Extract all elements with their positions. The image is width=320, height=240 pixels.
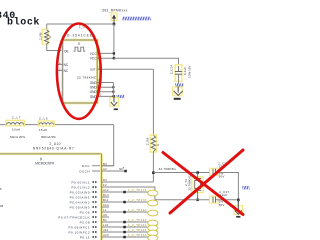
power pin arrow (yellow highlighted) [111, 13, 117, 24]
svg-text:32.768KBu: 32.768KBu [159, 167, 176, 171]
P0.04 testpoint junction dot [123, 201, 126, 204]
ground symbol below oscillator (yellow highlighted) [110, 96, 119, 110]
P0.06 testpoint junction dot [123, 211, 126, 214]
pin P0.11 glyph [92, 236, 98, 238]
pin VCC2 wire [97, 57, 114, 59]
pin GND3 wire [97, 91, 113, 93]
junction VCC2/rail [113, 57, 115, 59]
svg-text:VCC: VCC [90, 52, 97, 56]
pin OUT wire to vertical drop [97, 68, 153, 70]
junction GND bus bottom [113, 95, 115, 97]
svg-text:P0.10/NFC2: P0.10/NFC2 [68, 230, 90, 234]
junction VCC1/rail [113, 52, 115, 54]
svg-text:B11: B11 [103, 198, 109, 202]
wire: R9 to crystal rail junction [152, 151, 154, 182]
DCCH stub purple tick [123, 167, 124, 168]
svg-text:P0.09/NFC1: P0.09/NFC1 [68, 225, 90, 229]
pin P0.03 stub [102, 196, 110, 198]
svg-text:2_C14: 2_C14 [169, 65, 173, 74]
svg-text:0: 0 [78, 42, 80, 46]
svg-text:0: 0 [157, 143, 159, 147]
svg-text:50V: 50V [219, 203, 225, 207]
svg-text:A8: A8 [103, 213, 107, 217]
svg-text:0: 0 [49, 35, 51, 39]
pin GND1 wire [97, 82, 113, 84]
pin P0.01 wire to crystal bottom riser [102, 187, 155, 200]
wire: crystal top rail XC1 [153, 172, 213, 174]
svg-text:2_R9: 2_R9 [146, 138, 150, 146]
svg-text:J24: J24 [103, 228, 109, 232]
pin P0.06 wire [102, 211, 148, 213]
junction crystal bottom [196, 199, 199, 202]
pin VCC1 wire [97, 52, 114, 54]
svg-text:A12: A12 [103, 188, 109, 192]
svg-text:P0.02/AIN0: P0.02/AIN0 [70, 190, 90, 194]
svg-text:2_R8: 2_R8 [38, 32, 42, 40]
inductor L7 (yellow highlighted coil) [6, 120, 25, 125]
pin P0.07 glyph [92, 216, 98, 218]
oscillator U=G1 body (yellow highlighted box) [63, 40, 98, 103]
pin P0.09 wire [102, 226, 148, 228]
svg-text:MICROCNTR: MICROCNTR [35, 161, 54, 165]
wire: oscillator OUT vertical drop to R9 [152, 69, 154, 135]
svg-text:P0.07/TRACECLK: P0.07/TRACECLK [58, 215, 90, 219]
svg-text:B13: B13 [103, 193, 109, 197]
pin P0.10 wire [102, 231, 148, 233]
svg-text:300mA 5%: 300mA 5% [41, 135, 56, 139]
P0.08 testpoint junction dot [123, 221, 126, 224]
pin P0.04 glyph [92, 201, 98, 203]
pin P0.09 glyph [92, 226, 98, 228]
ground symbol crystal caps (yellow highlighted) [234, 200, 243, 218]
svg-text:A2: A2 [103, 167, 107, 171]
svg-text:B3: B3 [103, 162, 107, 166]
MCU box right edge (yellow highlighted) [100, 154, 103, 240]
wire: VCC rail to decoupling cap C14 [114, 58, 179, 71]
svg-text:F2: F2 [103, 183, 107, 187]
P0.10 testpoint junction dot [123, 231, 126, 234]
pin DCCH glyph [92, 170, 100, 172]
svg-text:1_2_TP143: 1_2_TP143 [128, 223, 147, 227]
pin P0.02 glyph [92, 191, 98, 193]
svg-text:GND: GND [90, 90, 97, 94]
svg-text:B: B [0, 187, 2, 191]
pin P0.04 wire [102, 201, 148, 203]
red annotation X stroke 1 [163, 153, 243, 215]
junction at top rail / power arrow [113, 23, 116, 26]
svg-text:DCCH: DCCH [79, 169, 90, 173]
pin P0.00 wire to crystal riser [102, 181, 154, 183]
svg-text:A10: A10 [103, 203, 109, 207]
svg-text:NC: NC [119, 167, 123, 171]
pin P0.08 glyph [92, 221, 98, 223]
svg-text:P0.08: P0.08 [80, 220, 90, 224]
red annotation X stroke 2 [170, 150, 243, 213]
svg-text:P0.03/AIN1: P0.03/AIN1 [70, 195, 90, 199]
wire: GND bus vertical [112, 83, 114, 98]
svg-text:15uH: 15uH [39, 128, 47, 132]
testpoint TP174 pad oval [148, 190, 158, 196]
testpoint TP170 pad oval [148, 200, 158, 206]
svg-text:1_2_TP142: 1_2_TP142 [128, 218, 147, 222]
blue hatched net label (C14 ground) [175, 83, 183, 86]
wire: crystal bottom rail XC2 [155, 199, 213, 201]
junction GND3 [112, 91, 114, 93]
pin NC2 stub [57, 69, 63, 71]
junction GND4 [112, 95, 114, 97]
pin P0.03 glyph [92, 196, 98, 198]
pin P0.08 wire [102, 221, 148, 223]
svg-text:L24: L24 [103, 223, 109, 227]
testpoint TP142 pad oval [148, 220, 158, 226]
pin P0.07 stub [102, 216, 110, 218]
svg-text:2_L7: 2_L7 [12, 116, 21, 120]
svg-text:NC: NC [64, 63, 69, 67]
svg-text:50mA 20%: 50mA 20% [10, 135, 25, 139]
pin P0.05 stub [102, 206, 110, 208]
wire: inductor rail down to DCC [102, 125, 114, 166]
resistor R8 (yellow highlighted, zigzag) [42, 29, 49, 44]
MCU box top edge (yellow highlighted) [0, 153, 102, 156]
testpoint TP143 pad oval [148, 225, 158, 231]
svg-text:50V: 50V [219, 175, 225, 179]
svg-text:2: 2 [59, 68, 61, 72]
capacitor C37 (yellow highlighted, series in bottom rail) [210, 196, 218, 203]
resistor R9 (yellow highlighted, zigzag) [150, 135, 156, 152]
svg-text:n block: n block [0, 16, 40, 28]
svg-text:P0.00/XL1: P0.00/XL1 [71, 180, 90, 184]
svg-text:1_2_TP145: 1_2_TP145 [128, 233, 147, 237]
red annotation ellipse around oscillator [57, 23, 101, 118]
pin DCCH wire [102, 170, 126, 172]
svg-text:2_U10: 2_U10 [49, 142, 60, 146]
pin GND2 wire [97, 86, 113, 88]
wire: vertical rail from junction down to VCC pins [113, 24, 115, 58]
svg-text:D2: D2 [103, 178, 107, 182]
svg-text:32.768KHZ: 32.768KHZ [77, 76, 96, 80]
svg-text:32.768KHZ: 32.768KHZ [188, 175, 192, 190]
svg-text:GND: GND [90, 86, 97, 90]
svg-text:A20: A20 [103, 233, 109, 237]
svg-text:P0.06: P0.06 [80, 210, 90, 214]
capacitor C14 (yellow highlighted) [175, 65, 182, 87]
pin DCC wire [102, 165, 114, 167]
junction GND2 [112, 86, 114, 88]
svg-text:P0.04/AIN2: P0.04/AIN2 [70, 200, 90, 204]
wire: C36 to ground rail [216, 173, 239, 206]
svg-text:1_2_TP170: 1_2_TP170 [128, 198, 147, 202]
testpoint TP145 pad oval [148, 235, 158, 240]
svg-text:GND: GND [90, 81, 97, 85]
DCCH end junction dot [124, 170, 127, 173]
svg-text:P0.11: P0.11 [80, 235, 90, 239]
blue hatched net label (osc ground) [116, 95, 124, 98]
svg-text:2_L5: 2_L5 [39, 117, 48, 121]
pin P0.06 glyph [92, 211, 98, 213]
pin P0.10 glyph [92, 231, 98, 233]
pin NC1 stub [57, 63, 63, 65]
pin P0.00 glyph [92, 181, 98, 183]
svg-text:10% 16V: 10% 16V [188, 64, 192, 77]
svg-text:OUT: OUT [90, 68, 96, 72]
pin P0.02 wire [102, 191, 148, 193]
svg-text:VCC: VCC [90, 57, 97, 61]
capacitor C36 (yellow highlighted, series in top rail) [210, 168, 218, 175]
pin P0.11 wire [102, 236, 148, 238]
oscillator square wave symbol [74, 47, 86, 51]
ground symbol below C14 (yellow highlighted) [173, 87, 183, 100]
junction crystal top [196, 171, 199, 174]
inductor rail wire [0, 124, 114, 126]
svg-text:1_2_TP140: 1_2_TP140 [128, 208, 147, 212]
P0.02 testpoint junction dot [123, 191, 126, 194]
pin P0.01 glyph [92, 186, 98, 188]
svg-text:NRF52840-QIAA-R7: NRF52840-QIAA-R7 [33, 146, 75, 150]
pin GND4 wire [97, 95, 113, 97]
svg-text:0.1uF: 0.1uF [183, 67, 187, 75]
crystal Y2 (yellow highlighted) [192, 173, 203, 200]
wire: C37 to ground vertical [216, 199, 239, 201]
svg-text:393_RPMKxxx: 393_RPMKxxx [102, 9, 128, 13]
svg-text:P0.01/XL2: P0.01/XL2 [71, 185, 90, 189]
svg-text:DCC: DCC [82, 164, 90, 168]
svg-text:B1: B1 [103, 218, 107, 222]
P0.09 testpoint junction dot [123, 226, 126, 229]
svg-text:4: 4 [59, 62, 61, 66]
P0.11 testpoint junction dot [123, 236, 126, 239]
blue hatched net label (crystal ground) [242, 186, 249, 189]
wire: top horizontal rail [47, 23, 114, 25]
svg-text:NC: NC [64, 69, 69, 73]
wire: left drop to resistor R8 [46, 24, 48, 30]
inductor L5 (yellow highlighted coil) [38, 121, 54, 126]
svg-text:10uH: 10uH [12, 127, 20, 131]
svg-text:OE: OE [64, 49, 69, 53]
svg-text:1_2_TP144: 1_2_TP144 [128, 228, 147, 232]
testpoint TP140 pad oval [148, 210, 158, 216]
testpoint TP144 pad oval [148, 230, 158, 236]
junction ground vertical / bottom rail [237, 199, 240, 202]
pin P0.05 glyph [92, 206, 98, 208]
blue hatched net label (top) [123, 17, 151, 21]
svg-text:UB: UB [0, 204, 3, 208]
svg-text:1_2_TP174: 1_2_TP174 [128, 188, 147, 192]
junction at XL1 rail [152, 171, 155, 174]
wire: R8 bottom to OE pin [47, 44, 63, 51]
pin DCC glyph [92, 165, 100, 167]
svg-text:L1: L1 [103, 208, 107, 212]
svg-text:P0.05/AIN3: P0.05/AIN3 [70, 205, 90, 209]
